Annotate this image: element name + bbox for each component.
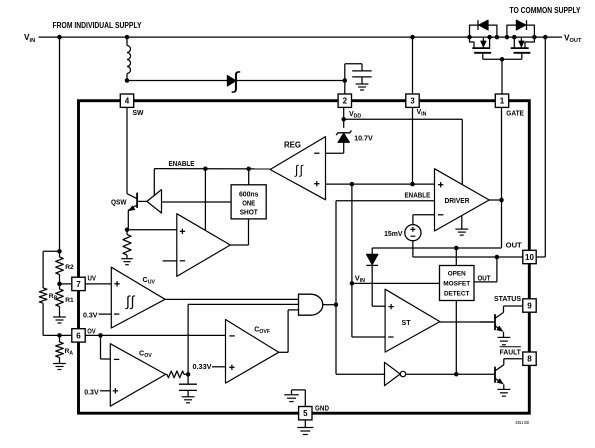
svg-text:DETECT: DETECT	[444, 291, 470, 298]
svg-text:OUT: OUT	[478, 274, 492, 283]
ground COV filter	[182, 397, 195, 403]
ground QSW pulldown	[121, 259, 133, 265]
wire pin3 VIN riser (external)	[412, 37, 414, 94]
transistor STATUS output	[481, 306, 523, 337]
junction M2 source node	[512, 35, 517, 40]
label COV	[139, 349, 152, 360]
pin 8 FAULT	[523, 352, 536, 365]
svg-text:UV: UV	[88, 274, 97, 283]
wire QSW emitter to comparator plus input	[127, 229, 177, 231]
buffer amp driving QSW	[147, 190, 162, 213]
ground below R1	[53, 317, 66, 323]
svg-text:FROM INDIVIDUAL SUPPLY: FROM INDIVIDUAL SUPPLY	[53, 21, 143, 30]
wire one-shot box to QSW buffer input	[162, 201, 232, 203]
svg-text:MOSFET: MOSFET	[443, 281, 471, 288]
wire ENABLE net	[154, 168, 270, 170]
label RA	[65, 348, 74, 356]
zener diode 10.7V	[326, 131, 352, 154]
wire ENABLE to driver	[336, 200, 435, 202]
svg-text:7: 7	[76, 280, 81, 289]
junction divider top node	[57, 249, 62, 254]
ground for VDD bypass	[356, 84, 369, 90]
comparator COV	[110, 344, 165, 407]
pin 6 OV	[72, 329, 85, 342]
wire COVF output to AND gate	[279, 310, 299, 352]
pin 5 GND	[299, 407, 312, 420]
wire COVF plus ref stub	[212, 366, 226, 368]
svg-text:ENABLE: ENABLE	[405, 191, 431, 200]
svg-text:0.3V: 0.3V	[84, 387, 99, 396]
pin 4 SW	[120, 94, 133, 107]
svg-text:ENABLE: ENABLE	[169, 159, 195, 168]
junction COV filter node	[186, 372, 191, 377]
junction OV tap	[57, 333, 62, 338]
junction pin3 riser on VIN rail	[410, 35, 415, 40]
wire OV line pin6 to COVF	[60, 334, 226, 336]
svg-text:1: 1	[500, 97, 505, 106]
node VOUT (output supply label)	[564, 32, 582, 44]
ground below RA	[53, 364, 66, 370]
transistor QSW	[127, 193, 147, 230]
wire VIN sense riser down	[351, 184, 353, 283]
junction M1 drain-diode node	[467, 35, 472, 40]
wire SW internal net	[126, 107, 128, 194]
wire VDD internal rail to driver supply	[344, 119, 463, 184]
wire comparator minus reference stub	[163, 260, 177, 262]
wire pin3 internal riser	[412, 107, 414, 185]
pin 2 VDD	[338, 94, 351, 107]
wire MOSFET gate bracket to pin1	[483, 59, 522, 94]
svg-text:R1: R1	[65, 297, 74, 304]
svg-text:ONE: ONE	[242, 198, 255, 207]
svg-text:4351 BD: 4351 BD	[515, 420, 529, 425]
AND gate fault logic	[299, 294, 323, 315]
svg-text:ST: ST	[402, 318, 411, 327]
wire drop ENABLE to comparator	[204, 169, 206, 231]
inverter buffer to FAULT	[385, 362, 406, 385]
wire COV minus input drop	[101, 335, 111, 359]
svg-text:STATUS: STATUS	[494, 294, 521, 303]
resistor R1	[56, 284, 64, 317]
label VIN pin3	[417, 109, 427, 118]
ground STATUS emitter	[498, 337, 511, 344]
svg-text:R2: R2	[65, 264, 74, 271]
junction plus rail / pin3 riser	[410, 182, 415, 187]
ground below pin5	[297, 428, 313, 435]
wire ENABLE drop to QSW buffer	[153, 169, 155, 197]
resistor RB	[39, 288, 59, 335]
junction OUT line / open-mosfet-detect output riser	[495, 255, 500, 260]
block OPEN MOSFET DETECT	[440, 248, 475, 374]
pin 9 STATUS	[523, 299, 536, 312]
transistor M2 body diode	[507, 20, 535, 37]
wire UV tap to pin7 and CUV	[60, 283, 112, 285]
wire stub ENABLE to one-shot box	[248, 169, 250, 185]
ideal diode symbol D1 on SW-VDD wire	[227, 67, 241, 93]
voltage source 15mV	[405, 225, 421, 241]
svg-text:TO COMMON SUPPLY: TO COMMON SUPPLY	[510, 6, 582, 15]
resistor R2	[56, 251, 64, 284]
junction OV / COV minus drop	[98, 333, 103, 338]
pin 10 OUT	[523, 250, 536, 263]
svg-text:8: 8	[527, 355, 532, 364]
wire VDD internal riser to zener	[343, 107, 345, 128]
node VIN (input supply label)	[24, 32, 35, 44]
pin 3 VIN	[406, 94, 419, 107]
wire COV plus ref stub	[100, 390, 110, 392]
transistor FAULT output	[495, 359, 523, 390]
svg-text:9: 9	[527, 301, 532, 310]
comparator one-shot trigger	[177, 214, 231, 277]
svg-text:OPEN: OPEN	[448, 271, 466, 278]
wire inverter output to FAULT transistor	[406, 373, 495, 375]
label VIN internal	[355, 273, 365, 284]
junction OUT sense tap on rail	[543, 35, 548, 40]
wire internal VIN sense line	[352, 282, 440, 284]
wire OUT pin external sense riser	[536, 37, 545, 257]
wire COV filter to AND gate	[188, 304, 298, 374]
wire ST output to STATUS transistor	[440, 321, 495, 323]
junction M2 diode anode node	[505, 35, 510, 40]
wire comparator output to one-shot box	[230, 219, 248, 245]
wire ST minus input	[352, 283, 385, 337]
svg-text:3: 3	[410, 97, 415, 106]
block 600ns ONE SHOT	[231, 185, 266, 219]
junction ENABLE / one-shot box stub	[246, 167, 251, 172]
transistor M1 body diode	[470, 20, 497, 37]
wire GND pin external	[304, 420, 306, 428]
junction M1 source node	[487, 35, 492, 40]
ground DRIVER	[455, 216, 468, 236]
junction gate node	[499, 198, 504, 203]
svg-text:REG: REG	[284, 141, 301, 150]
resistor QSW emitter pulldown	[123, 230, 131, 259]
transistor M1 external MOSFET	[470, 37, 492, 59]
pin 7 UV	[72, 277, 85, 290]
junction VDD riser / SW wire	[343, 78, 348, 83]
svg-text:4: 4	[125, 97, 130, 106]
junction divider tap on VIN rail	[57, 35, 62, 40]
wire CUV minus ref stub	[99, 313, 112, 315]
wire OMD OUT output	[474, 257, 497, 282]
wire driver output to gate node	[489, 199, 501, 201]
junction VDD internal branch	[341, 117, 346, 122]
op-amp REG (points left)	[270, 137, 325, 200]
wire GND pin internal	[292, 390, 306, 407]
svg-text:10.7V: 10.7V	[354, 133, 373, 142]
wire internal plus rail REG to DRIVER	[326, 183, 435, 185]
junction UV tap	[57, 282, 62, 287]
transistor M2 external MOSFET	[511, 37, 535, 59]
IC boundary LTC4351	[79, 101, 530, 414]
svg-text:QSW: QSW	[111, 198, 127, 207]
comparator CUV	[111, 267, 165, 328]
diode gate to VIN sense	[366, 248, 378, 283]
wire VIN supply rail	[39, 36, 563, 38]
op-amp ST	[385, 289, 440, 352]
wire divider riser from VIN rail	[59, 37, 61, 251]
svg-text:15mV: 15mV	[384, 229, 403, 238]
label COVF	[254, 324, 270, 335]
svg-text:SHOT: SHOT	[240, 207, 259, 216]
wire enable riser to inverter	[336, 201, 385, 375]
svg-text:GATE: GATE	[506, 108, 524, 117]
svg-text:10: 10	[525, 253, 534, 262]
junction M2 drain node	[532, 35, 537, 40]
svg-text:0.3V: 0.3V	[83, 310, 98, 319]
label TO COMMON SUPPLY	[510, 6, 582, 15]
wire driver minus to 15mV source	[413, 215, 435, 225]
junction VIN sense / riser	[350, 281, 355, 286]
inductor L1	[127, 37, 131, 80]
wire VDD pin riser and bypass branch	[345, 64, 362, 95]
svg-text:5: 5	[303, 409, 308, 418]
label CUV	[143, 275, 156, 286]
wire pin1 GATE internal riser	[501, 107, 503, 249]
svg-text:SW: SW	[133, 108, 144, 117]
label RB	[49, 293, 58, 301]
junction gate line / OMD stub	[454, 246, 459, 251]
svg-text:∫: ∫	[294, 163, 299, 177]
svg-text:FAULT: FAULT	[500, 348, 522, 357]
wire gate feedback line	[372, 247, 501, 249]
resistor RA	[56, 335, 64, 363]
svg-text:GND: GND	[315, 404, 329, 413]
svg-text:0.33V: 0.33V	[193, 362, 212, 371]
svg-text:OUT: OUT	[506, 241, 523, 250]
svg-text:DRIVER: DRIVER	[445, 196, 471, 205]
svg-text:∫: ∫	[299, 163, 304, 177]
op-amp DRIVER	[435, 169, 490, 231]
label FAULT with overbar	[500, 347, 522, 357]
svg-text:OV: OV	[87, 327, 96, 336]
pin 1 GATE	[495, 94, 508, 107]
capacitor C-VDD bypass	[352, 71, 372, 84]
wire 15mV to OUT pin line	[413, 241, 523, 257]
junction inductor tap on VIN rail	[125, 35, 130, 40]
junction gate bracket center	[500, 57, 505, 62]
junction inverter output / OMD bottom stub	[454, 372, 459, 377]
junction AND output on enable riser	[334, 302, 339, 307]
svg-text:2: 2	[343, 97, 348, 106]
junction ENABLE / one-shot comparator drop	[203, 166, 208, 171]
wire RB branch	[43, 251, 59, 288]
svg-text:6: 6	[76, 331, 81, 340]
junction inductor bottom node	[125, 78, 130, 83]
wire ST plus input riser	[372, 283, 385, 306]
junction M1 diode cathode node	[495, 35, 500, 40]
ground FAULT emitter	[498, 389, 511, 396]
resistor COV output filter	[166, 371, 189, 378]
label VDD	[349, 111, 361, 120]
comparator COVF	[226, 320, 279, 384]
wire CUV output to AND gate	[165, 298, 298, 300]
svg-text:600ns: 600ns	[239, 189, 259, 198]
junction QSW emitter node	[125, 227, 130, 232]
capacitor COV filter	[179, 374, 197, 396]
wire SW node to VDD riser	[127, 80, 345, 82]
label FROM INDIVIDUAL SUPPLY	[53, 21, 143, 30]
wire AND output	[323, 304, 336, 306]
junction plus rail / VIN sense riser	[350, 182, 355, 187]
ground internal near pin5	[284, 395, 299, 402]
